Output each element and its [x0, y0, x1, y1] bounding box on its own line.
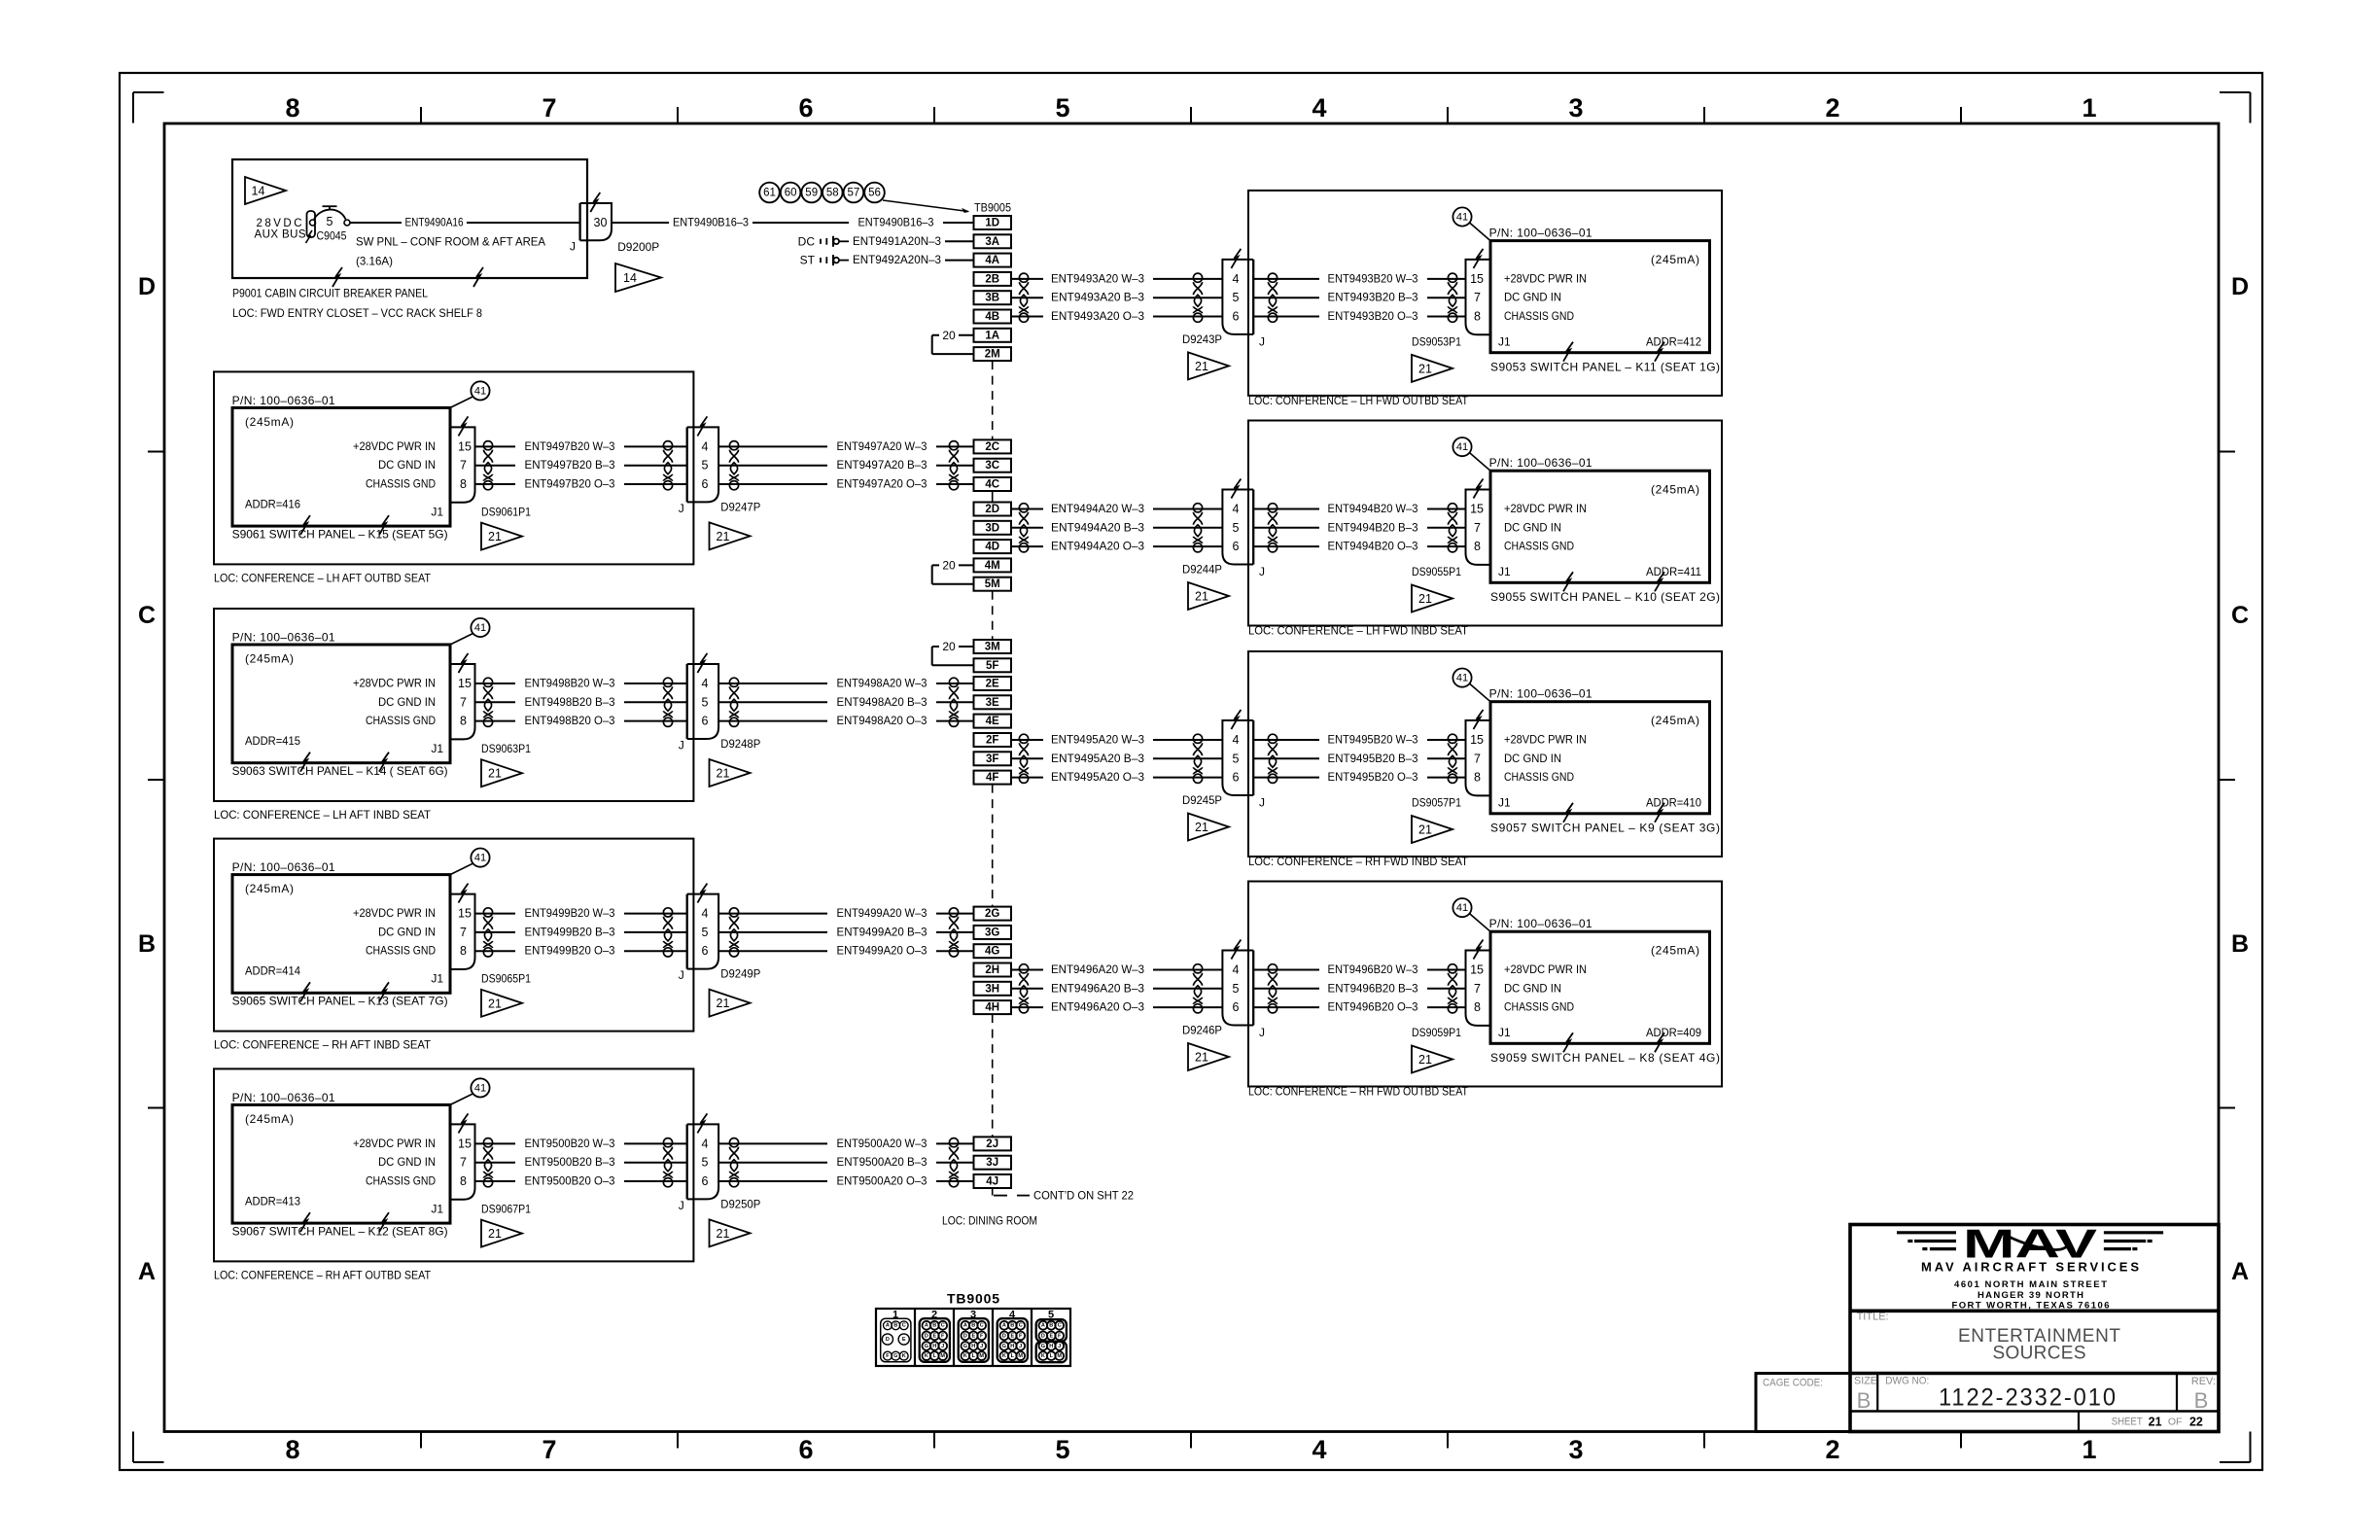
terminal TB9005-3E: [974, 695, 1012, 709]
shield twist: [729, 1138, 738, 1187]
svg-text:ENT9494B20 O–3: ENT9494B20 O–3: [1328, 540, 1418, 553]
svg-text:ADDR=416: ADDR=416: [245, 497, 300, 510]
svg-text:DC GND IN: DC GND IN: [1504, 291, 1561, 304]
svg-text:5: 5: [327, 215, 333, 228]
shield twist: [1193, 734, 1202, 783]
shield twist: [1193, 273, 1202, 322]
svg-text:1: 1: [2082, 1435, 2096, 1464]
svg-text:ST: ST: [800, 254, 816, 267]
shield twist: [1448, 734, 1456, 783]
wire ENT9495B20 B-3: [1253, 752, 1465, 765]
switch panel S9065 outer boundary box: [214, 839, 693, 1032]
svg-text:P/N: 100–0636–01: P/N: 100–0636–01: [232, 631, 335, 645]
wire ENT9490A16: [350, 216, 579, 229]
terminal TB9005-4G: [974, 944, 1012, 958]
svg-text:LOC: CONFERENCE – RH AFT INBD: LOC: CONFERENCE – RH AFT INBD SEAT: [214, 1038, 432, 1052]
svg-text:2E: 2E: [986, 679, 999, 690]
shield twist: [949, 441, 958, 490]
svg-text:15: 15: [458, 677, 472, 690]
svg-text:J: J: [679, 1199, 684, 1212]
svg-text:ENT9499A20 B–3: ENT9499A20 B–3: [837, 925, 927, 938]
svg-text:CHASSIS GND: CHASSIS GND: [1504, 1000, 1574, 1014]
svg-text:G: G: [963, 1344, 967, 1349]
svg-text:CHASSIS GND: CHASSIS GND: [1504, 770, 1574, 784]
svg-text:LOC: CONFERENCE – RH FWD OUTBD: LOC: CONFERENCE – RH FWD OUTBD SEAT: [1248, 1085, 1469, 1099]
svg-text:SHEET: SHEET: [2112, 1416, 2143, 1427]
wire ENT9498B20 B-3: [475, 695, 687, 709]
terminal TB9005-3M: [974, 640, 1012, 653]
flag 21 (DS9063P1): [481, 759, 522, 787]
svg-text:(245mA): (245mA): [245, 882, 294, 895]
svg-text:3C: 3C: [985, 460, 999, 472]
svg-text:J1: J1: [1498, 795, 1511, 809]
svg-text:5: 5: [702, 926, 709, 939]
svg-text:ENT9496B20 O–3: ENT9496B20 O–3: [1328, 1000, 1418, 1014]
svg-text:ENT9493B20 W–3: ENT9493B20 W–3: [1328, 271, 1418, 285]
terminal TB9005-2E: [974, 677, 1012, 690]
wire ENT9493A20 W-3: [1011, 271, 1222, 285]
wire ENT9499A20 W-3: [718, 906, 973, 920]
svg-text:J: J: [1058, 1344, 1061, 1349]
wire ENT9494B20 B-3: [1253, 520, 1465, 534]
svg-text:ENT9497B20 W–3: ENT9497B20 W–3: [525, 439, 615, 453]
flag 21 (D9246P): [1188, 1043, 1229, 1070]
wire ENT9496B20 W-3: [1253, 962, 1465, 976]
svg-text:7: 7: [460, 926, 467, 939]
svg-text:4: 4: [702, 439, 709, 453]
flag 21 (DS9059P1): [1412, 1046, 1452, 1073]
svg-text:ENT9494A20 O–3: ENT9494A20 O–3: [1051, 540, 1144, 553]
svg-text:ENT9490A16: ENT9490A16: [405, 216, 464, 229]
svg-text:ENT9496A20 B–3: ENT9496A20 B–3: [1051, 981, 1144, 995]
terminal TB9005-3J: [974, 1156, 1012, 1170]
wire ENT9494A20 W-3: [1011, 502, 1222, 515]
svg-text:DC GND IN: DC GND IN: [1504, 981, 1561, 995]
terminal TB9005-2H: [974, 963, 1012, 977]
wire number balloons 61-56: [759, 183, 968, 213]
terminal TB9005-2F: [974, 733, 1012, 747]
svg-text:ENT9499B20 W–3: ENT9499B20 W–3: [525, 906, 615, 920]
svg-text:G: G: [893, 1353, 897, 1359]
wire ENT9496A20 W-3: [1011, 962, 1222, 976]
connector plug D9247P pins 4/5/6: [679, 416, 761, 515]
svg-text:21: 21: [717, 767, 730, 781]
svg-text:LOC: DINING ROOM: LOC: DINING ROOM: [942, 1213, 1037, 1227]
wire ENT9497A20 W-3: [718, 439, 973, 453]
svg-text:8: 8: [460, 1174, 467, 1188]
svg-text:D9247P: D9247P: [720, 500, 760, 513]
svg-text:ENT9500B20 W–3: ENT9500B20 W–3: [525, 1137, 615, 1150]
terminal TB9005-4A: [974, 254, 1012, 267]
note balloon 41: [450, 1078, 490, 1104]
svg-text:B: B: [2231, 930, 2249, 958]
device S9055 P/N 100-0636-01 box: [1489, 456, 1720, 604]
connector plug D9245P pins 4/5/6: [1182, 710, 1265, 809]
svg-text:M: M: [1057, 1353, 1062, 1359]
svg-text:ENT9494A20 B–3: ENT9494A20 B–3: [1051, 520, 1144, 534]
note balloon 41: [450, 849, 490, 875]
svg-text:7: 7: [460, 695, 467, 709]
svg-text:15: 15: [458, 1137, 472, 1150]
svg-text:ENT9496A20 O–3: ENT9496A20 O–3: [1051, 1000, 1144, 1014]
terminal TB9005-2G: [974, 907, 1012, 921]
connector plug D9249P pins 4/5/6: [679, 884, 761, 983]
svg-text:H: H: [971, 1344, 975, 1349]
svg-text:4B: 4B: [985, 311, 999, 323]
svg-text:4E: 4E: [986, 716, 999, 727]
svg-text:3J: 3J: [986, 1157, 998, 1169]
svg-text:2: 2: [1825, 93, 1839, 122]
svg-text:7: 7: [1474, 291, 1481, 304]
flag 21 (DS9065P1): [481, 990, 522, 1017]
wire ENT9499B20 B-3: [475, 925, 687, 938]
wire ENT9494B20 O-3: [1253, 540, 1465, 553]
svg-text:C: C: [941, 1323, 945, 1329]
svg-text:ENT9490B16–3: ENT9490B16–3: [858, 216, 934, 229]
svg-text:2G: 2G: [985, 908, 999, 920]
device S9063 P/N 100-0636-01 box: [232, 631, 450, 778]
shield twist: [663, 441, 672, 490]
svg-text:8: 8: [1474, 540, 1481, 553]
terminal TB9005-4B: [974, 310, 1012, 324]
svg-text:5: 5: [702, 695, 709, 709]
svg-text:D9248P: D9248P: [720, 737, 760, 751]
svg-text:ENT9497A20 W–3: ENT9497A20 W–3: [837, 439, 927, 453]
svg-text:J1: J1: [431, 742, 443, 755]
terminal TB9005-4M: [974, 558, 1012, 572]
svg-text:ENT9495B20 B–3: ENT9495B20 B–3: [1328, 752, 1418, 765]
svg-text:4C: 4C: [985, 479, 999, 491]
svg-text:ENT9495A20 B–3: ENT9495A20 B–3: [1051, 752, 1144, 765]
svg-text:8: 8: [460, 715, 467, 728]
svg-text:ENT9498B20 W–3: ENT9498B20 W–3: [525, 677, 615, 690]
svg-text:CHASSIS GND: CHASSIS GND: [366, 477, 436, 491]
svg-text:61: 61: [763, 188, 776, 199]
connector plug D9250P pins 4/5/6: [679, 1113, 761, 1212]
svg-text:8: 8: [285, 93, 299, 122]
terminal block TB9005 pictorial: [876, 1290, 1070, 1366]
svg-text:OF: OF: [2168, 1416, 2183, 1427]
shield twist: [1019, 504, 1028, 552]
wire ENT9495B20 W-3: [1253, 733, 1465, 747]
svg-text:ENT9491A20N–3: ENT9491A20N–3: [853, 234, 941, 248]
svg-text:ENT9500B20 O–3: ENT9500B20 O–3: [525, 1174, 615, 1188]
svg-text:DC: DC: [798, 234, 816, 248]
svg-text:CHASSIS GND: CHASSIS GND: [366, 944, 436, 958]
svg-text:ENT9493A20 O–3: ENT9493A20 O–3: [1051, 309, 1144, 323]
svg-text:21: 21: [717, 530, 730, 543]
svg-text:G: G: [1041, 1344, 1045, 1349]
svg-text:A: A: [1002, 1323, 1006, 1329]
svg-text:P/N: 100–0636–01: P/N: 100–0636–01: [1489, 227, 1592, 240]
svg-text:1122-2332-010: 1122-2332-010: [1939, 1384, 2117, 1412]
svg-text:+28VDC PWR IN: +28VDC PWR IN: [353, 677, 436, 690]
svg-text:LOC: FWD ENTRY CLOSET – VCC RA: LOC: FWD ENTRY CLOSET – VCC RACK SHELF 8: [232, 306, 482, 320]
switch panel S9057 outer boundary box: [1248, 651, 1722, 857]
svg-text:DS9055P1: DS9055P1: [1412, 565, 1461, 578]
shield twist: [663, 1138, 672, 1187]
svg-text:K: K: [1041, 1353, 1045, 1359]
svg-text:A: A: [1041, 1323, 1045, 1329]
TB9005 module 2: [920, 1318, 950, 1362]
jumper 20 terminals 1A-2M: [932, 329, 974, 354]
wire ENT9499B20 O-3: [475, 944, 687, 958]
svg-text:J: J: [570, 240, 576, 254]
terminal TB9005-1A: [974, 329, 1012, 342]
svg-text:MAV AIRCRAFT SERVICES: MAV AIRCRAFT SERVICES: [1921, 1260, 2141, 1275]
svg-text:2B: 2B: [985, 273, 999, 285]
svg-text:P/N: 100–0636–01: P/N: 100–0636–01: [1489, 687, 1592, 701]
svg-text:41: 41: [474, 1082, 486, 1094]
svg-text:ADDR=409: ADDR=409: [1646, 1026, 1701, 1039]
svg-text:B: B: [932, 1323, 936, 1329]
TB9005 module 5: [1036, 1319, 1067, 1362]
svg-text:8: 8: [460, 477, 467, 491]
svg-text:3G: 3G: [985, 927, 999, 938]
svg-text:41: 41: [1456, 212, 1468, 224]
TB9005 module 4: [997, 1318, 1028, 1362]
svg-text:B: B: [893, 1323, 897, 1329]
svg-text:S9057 SWITCH PANEL – K9 (SEAT: S9057 SWITCH PANEL – K9 (SEAT 3G): [1490, 822, 1720, 835]
terminal TB9005-4F: [974, 771, 1012, 785]
svg-text:E: E: [932, 1333, 936, 1339]
svg-text:57: 57: [848, 188, 860, 199]
svg-text:21: 21: [1195, 821, 1208, 834]
flag 21 (D9245P): [1188, 814, 1229, 841]
shield twist: [729, 441, 738, 490]
wire ENT9493B20 B-3: [1253, 291, 1465, 304]
svg-text:2F: 2F: [986, 735, 998, 747]
svg-text:S9065 SWITCH PANEL – K13 (SEAT: S9065 SWITCH PANEL – K13 (SEAT 7G): [232, 995, 448, 1008]
svg-text:8: 8: [1474, 1000, 1481, 1014]
wire ENT9495B20 O-3: [1253, 770, 1465, 784]
wire ENT9500A20 O-3: [718, 1174, 973, 1188]
device S9061 P/N 100-0636-01 box: [232, 394, 450, 541]
wire ENT9490B16-3: [612, 216, 974, 229]
svg-text:5: 5: [1055, 1435, 1069, 1464]
svg-text:A: A: [925, 1323, 928, 1329]
svg-text:(245mA): (245mA): [1651, 714, 1699, 727]
svg-text:21: 21: [1418, 1053, 1432, 1067]
svg-text:J1: J1: [431, 505, 443, 518]
svg-text:B: B: [971, 1323, 975, 1329]
svg-text:DC GND IN: DC GND IN: [378, 695, 436, 709]
svg-text:21: 21: [488, 1227, 502, 1241]
terminal TB9005-3F: [974, 752, 1012, 765]
flag 14: [245, 177, 286, 204]
svg-text:C: C: [902, 1323, 906, 1329]
svg-text:ENT9498A20 O–3: ENT9498A20 O–3: [837, 714, 927, 727]
svg-text:D9200P: D9200P: [617, 240, 659, 254]
svg-text:ENT9498B20 O–3: ENT9498B20 O–3: [525, 714, 615, 727]
svg-text:B: B: [1857, 1388, 1872, 1413]
terminal TB9005-2D: [974, 503, 1012, 516]
svg-text:8: 8: [460, 944, 467, 958]
wire ENT9493A20 O-3: [1011, 309, 1222, 323]
terminal TB9005-4C: [974, 477, 1012, 491]
svg-text:C: C: [1058, 1323, 1062, 1329]
wire ENT9498A20 W-3: [718, 677, 973, 690]
svg-text:15: 15: [1470, 733, 1484, 747]
svg-text:15: 15: [458, 907, 472, 921]
svg-text:ENT9498B20 B–3: ENT9498B20 B–3: [525, 695, 615, 709]
circuit breaker C9045 5A: [306, 206, 351, 243]
svg-text:7: 7: [1474, 752, 1481, 765]
svg-text:J1: J1: [1498, 334, 1511, 348]
svg-text:DC GND IN: DC GND IN: [378, 458, 436, 472]
svg-text:H: H: [1049, 1344, 1053, 1349]
svg-text:J: J: [980, 1344, 983, 1349]
svg-text:ENT9494A20 W–3: ENT9494A20 W–3: [1051, 502, 1144, 515]
svg-text:ENT9492A20N–3: ENT9492A20N–3: [853, 253, 941, 266]
svg-text:D: D: [886, 1337, 890, 1343]
svg-text:LOC: CONFERENCE – LH FWD INBD: LOC: CONFERENCE – LH FWD INBD SEAT: [1248, 624, 1469, 638]
note balloon 41: [1452, 437, 1490, 471]
svg-text:DC GND IN: DC GND IN: [378, 925, 436, 938]
svg-text:D: D: [925, 1333, 928, 1339]
svg-text:21: 21: [717, 997, 730, 1010]
shield twist: [1448, 504, 1456, 552]
wire ENT9493B20 O-3: [1253, 309, 1465, 323]
svg-text:J1: J1: [431, 972, 443, 986]
svg-text:J: J: [679, 739, 684, 752]
svg-text:S9061 SWITCH PANEL – K15 (SEAT: S9061 SWITCH PANEL – K15 (SEAT 5G): [232, 527, 448, 541]
shield twist: [663, 908, 672, 957]
svg-text:ENT9495A20 W–3: ENT9495A20 W–3: [1051, 733, 1144, 747]
shield twist: [729, 678, 738, 726]
terminal TB9005-3C: [974, 459, 1012, 472]
svg-text:41: 41: [1456, 441, 1468, 453]
flag 21 (DS9057P1): [1412, 816, 1452, 843]
svg-text:58: 58: [826, 188, 839, 199]
wire ENT9500B20 B-3: [475, 1155, 687, 1169]
svg-text:DS9061P1: DS9061P1: [481, 505, 531, 518]
svg-text:20: 20: [942, 640, 956, 653]
svg-text:15: 15: [1470, 272, 1484, 286]
svg-text:G: G: [1002, 1344, 1006, 1349]
svg-text:CHASSIS GND: CHASSIS GND: [366, 1174, 436, 1188]
device S9065 P/N 100-0636-01 box: [232, 860, 450, 1007]
svg-text:6: 6: [798, 93, 813, 122]
wire ENT9498B20 O-3: [475, 714, 687, 727]
svg-text:ADDR=410: ADDR=410: [1646, 795, 1701, 809]
source ST: [800, 254, 849, 267]
svg-text:D9243P: D9243P: [1182, 332, 1222, 346]
flag 21 (D9248P): [710, 759, 751, 787]
wire ENT9496A20 O-3: [1011, 1000, 1222, 1014]
svg-text:D9246P: D9246P: [1182, 1023, 1222, 1036]
shield twist: [1268, 964, 1277, 1013]
flag 21 (D9244P): [1188, 582, 1229, 610]
svg-text:ENT9493A20 B–3: ENT9493A20 B–3: [1051, 291, 1144, 304]
shield twist: [663, 678, 672, 726]
svg-text:P/N: 100–0636–01: P/N: 100–0636–01: [1489, 456, 1592, 470]
svg-text:SIZE: SIZE: [1854, 1376, 1877, 1387]
shield twist: [1193, 504, 1202, 552]
terminal TB9005-4E: [974, 715, 1012, 728]
shield twist: [949, 678, 958, 726]
svg-text:M: M: [940, 1353, 945, 1359]
device S9053 P/N 100-0636-01 box: [1489, 227, 1720, 374]
svg-text:B: B: [1010, 1323, 1014, 1329]
svg-text:D9244P: D9244P: [1182, 562, 1222, 576]
terminal TB9005-4D: [974, 540, 1012, 553]
svg-text:DWG NO:: DWG NO:: [1885, 1376, 1929, 1387]
svg-text:SOURCES: SOURCES: [1993, 1343, 2086, 1363]
flag 21 (D9250P): [710, 1219, 751, 1246]
svg-text:ENT9496B20 B–3: ENT9496B20 B–3: [1328, 981, 1418, 995]
wire ENT9495A20 W-3: [1011, 733, 1222, 747]
svg-text:5: 5: [702, 1156, 709, 1170]
svg-text:SW PNL – CONF ROOM & AFT AREA: SW PNL – CONF ROOM & AFT AREA: [356, 235, 545, 249]
svg-text:A: A: [886, 1323, 890, 1329]
svg-text:5: 5: [702, 459, 709, 472]
device S9057 P/N 100-0636-01 box: [1489, 687, 1720, 835]
svg-text:C: C: [2231, 602, 2249, 629]
svg-text:6: 6: [1233, 310, 1240, 324]
svg-text:CHASSIS GND: CHASSIS GND: [366, 714, 436, 727]
svg-text:P/N: 100–0636–01: P/N: 100–0636–01: [232, 394, 335, 407]
svg-text:LOC: CONFERENCE – LH AFT OUTBD: LOC: CONFERENCE – LH AFT OUTBD SEAT: [214, 571, 432, 584]
terminal TB9005-5F: [974, 658, 1012, 672]
svg-text:P/N: 100–0636–01: P/N: 100–0636–01: [1489, 917, 1592, 930]
svg-text:5M: 5M: [985, 578, 1000, 590]
svg-text:4: 4: [702, 677, 709, 690]
wire ENT9497A20 O-3: [718, 477, 973, 491]
svg-text:14: 14: [623, 271, 637, 285]
label SW PNL: [356, 235, 545, 268]
terminal TB9005-2C: [974, 439, 1012, 453]
svg-text:41: 41: [474, 622, 486, 634]
note balloon 41: [450, 381, 490, 407]
node 28VDC AUX BUS: [255, 218, 306, 241]
switch panel S9059 outer boundary box: [1248, 882, 1722, 1087]
svg-text:15: 15: [1470, 963, 1484, 977]
terminal TB9005-5M: [974, 577, 1012, 591]
svg-text:ENT9493B20 B–3: ENT9493B20 B–3: [1328, 291, 1418, 304]
svg-text:ENT9495A20 O–3: ENT9495A20 O–3: [1051, 770, 1144, 784]
svg-text:ENT9490B16–3: ENT9490B16–3: [673, 216, 749, 229]
svg-text:REV:: REV:: [2191, 1376, 2216, 1387]
flag 21 (DS9055P1): [1412, 585, 1452, 612]
svg-text:E: E: [902, 1337, 906, 1343]
shield twist: [1019, 734, 1028, 783]
svg-text:P/N: 100–0636–01: P/N: 100–0636–01: [232, 860, 335, 874]
shield twist: [483, 908, 492, 957]
svg-text:LOC: CONFERENCE – RH AFT OUTBD: LOC: CONFERENCE – RH AFT OUTBD SEAT: [214, 1268, 432, 1281]
svg-text:1A: 1A: [985, 330, 999, 341]
svg-text:7: 7: [460, 1156, 467, 1170]
svg-text:5F: 5F: [986, 660, 998, 672]
svg-text:21: 21: [488, 767, 502, 781]
svg-text:7: 7: [460, 459, 467, 472]
flag 14: [615, 263, 661, 292]
wire ENT9495A20 B-3: [1011, 752, 1222, 765]
source DC: [798, 234, 849, 248]
wire ENT9498A20 O-3: [718, 714, 973, 727]
svg-text:D: D: [963, 1333, 967, 1339]
svg-text:(245mA): (245mA): [1651, 483, 1699, 497]
svg-text:3E: 3E: [986, 697, 999, 709]
terminal TB9005-3H: [974, 982, 1012, 996]
shield twist: [729, 908, 738, 957]
svg-text:ADDR=414: ADDR=414: [245, 964, 300, 978]
svg-text:K: K: [925, 1353, 928, 1359]
svg-text:B: B: [1049, 1323, 1053, 1329]
svg-text:D: D: [1041, 1333, 1045, 1339]
svg-text:B: B: [2194, 1388, 2209, 1413]
svg-text:J: J: [941, 1344, 944, 1349]
